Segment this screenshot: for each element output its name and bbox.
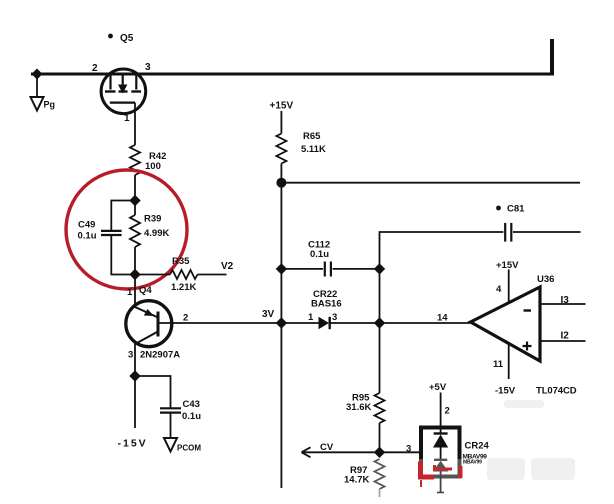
svg-text:R65: R65: [303, 131, 321, 142]
wire op-amp pin4 +15V: [508, 270, 510, 304]
svg-text:3: 3: [332, 312, 337, 323]
svg-text:0.1u: 0.1u: [182, 411, 201, 422]
svg-text:Q4: Q4: [139, 285, 152, 296]
wire Q4 base to 3V node: [158, 322, 282, 324]
wire to -15V: [134, 376, 136, 428]
svg-text:CV: CV: [320, 442, 334, 453]
capacitor C112 0.1u: [281, 240, 379, 277]
label MBAV99 (faded): [463, 454, 488, 466]
svg-text:R39: R39: [144, 214, 161, 225]
diode CR22 BAS16: [281, 289, 379, 329]
diode CR24 package box: [421, 428, 460, 477]
watermark red logo: [418, 462, 461, 488]
resistor R42 100: [130, 145, 166, 175]
svg-text:-15V: -15V: [495, 386, 516, 397]
svg-text:U36: U36: [537, 274, 554, 285]
wire CV with arrow: [302, 442, 380, 457]
diode CR24 top diode: [433, 434, 448, 460]
svg-text:5.11K: 5.11K: [301, 144, 326, 155]
op-amp U36 TL074CD: [471, 274, 577, 397]
transistor Q5 (MOSFET): [92, 33, 151, 124]
wire long rail right: [281, 182, 580, 184]
svg-text:C43: C43: [183, 399, 200, 410]
svg-text:100: 100: [145, 161, 161, 172]
resistor R35 1.21K: [135, 256, 227, 293]
wire C112 right node down to R95: [379, 269, 381, 393]
capacitor C81: [496, 204, 580, 242]
watermark faint blobs: [487, 400, 575, 480]
node CV junction: [374, 447, 385, 458]
svg-text:+15V: +15V: [496, 260, 519, 271]
svg-text:4.99K: 4.99K: [144, 228, 169, 239]
wire op-amp output I2: [540, 340, 586, 342]
svg-text:31.6K: 31.6K: [346, 402, 371, 413]
svg-text:+5V: +5V: [429, 382, 447, 393]
svg-text:BAS16: BAS16: [311, 299, 342, 310]
svg-text:4: 4: [496, 284, 502, 295]
wire R42 to node: [134, 175, 136, 201]
ground Pg: [31, 97, 56, 111]
svg-text:Q5: Q5: [120, 33, 134, 44]
svg-text:C81: C81: [507, 204, 525, 215]
node CR22 right: [374, 317, 385, 328]
resistor R97 14.7K: [344, 459, 385, 497]
wire node to Q4: [134, 275, 136, 308]
resistor R39 4.99K: [130, 201, 169, 275]
svg-text:0.1u: 0.1u: [310, 249, 329, 260]
wire down to C112 node: [280, 183, 282, 269]
wire Q5 pin1 to R42: [134, 103, 136, 145]
wire R65 to node: [280, 164, 282, 183]
svg-text:3V: 3V: [262, 309, 275, 320]
svg-text:1: 1: [308, 312, 314, 323]
svg-text:2N2907A: 2N2907A: [140, 350, 180, 361]
node C112 left: [276, 263, 287, 274]
svg-text:1: 1: [127, 287, 133, 298]
annotation red circle: [66, 170, 187, 289]
svg-text:TL074CD: TL074CD: [536, 386, 577, 397]
svg-text:0.1u: 0.1u: [78, 231, 97, 242]
svg-text:PCOM: PCOM: [177, 444, 201, 453]
svg-text:1: 1: [124, 113, 130, 124]
node C112 right: [374, 263, 385, 274]
transistor Q4 2N2907A: [126, 285, 180, 376]
svg-text:1.21K: 1.21K: [171, 282, 196, 293]
svg-text:I3: I3: [561, 295, 570, 306]
capacitor C49 0.1u: [78, 201, 136, 275]
svg-text:I2: I2: [561, 331, 570, 342]
svg-text:Pg: Pg: [44, 100, 56, 110]
wire ground drop: [36, 74, 38, 97]
ground PCOM: [164, 438, 201, 453]
node R65 bottom: [276, 178, 286, 188]
svg-text:CR24: CR24: [465, 441, 490, 452]
node Q4 emitter junction: [129, 370, 140, 381]
svg-text:3: 3: [145, 62, 151, 73]
svg-text:11: 11: [493, 359, 504, 370]
resistor R95 31.6K: [346, 393, 385, 453]
svg-text:3: 3: [406, 444, 411, 455]
wire 3V node down to bottom: [280, 323, 282, 488]
svg-text:R35: R35: [172, 256, 190, 267]
diode CR24 bottom diode (faded): [433, 460, 449, 493]
wire main top rail: [31, 73, 552, 76]
node 3V: [276, 317, 287, 328]
svg-text:14.7K: 14.7K: [344, 475, 369, 486]
svg-text:14: 14: [437, 313, 448, 324]
svg-text:+15V: +15V: [270, 101, 294, 112]
wire C112 node up and right to C81: [380, 232, 504, 269]
svg-text:2: 2: [445, 406, 450, 417]
wire node to CR24 pin3: [380, 451, 422, 453]
wire +15V to R65: [280, 111, 282, 134]
svg-text:C49: C49: [78, 220, 95, 231]
svg-text:MBAV99: MBAV99: [463, 460, 482, 466]
node R39 bottom: [129, 269, 140, 280]
svg-text:2: 2: [183, 313, 188, 324]
wire down to 3V node: [280, 269, 282, 323]
wire op-amp output I3: [540, 303, 586, 305]
svg-text:V2: V2: [221, 261, 234, 272]
wire op-amp pin11 -15V: [508, 342, 510, 379]
svg-text:2: 2: [92, 63, 98, 74]
svg-text:-15V: -15V: [118, 438, 148, 450]
resistor R65 5.11K: [276, 131, 326, 164]
wire node to op-amp: [380, 322, 471, 324]
capacitor C43 0.1u: [135, 376, 201, 438]
wire top-right vertical stub: [550, 39, 554, 76]
node R42/R39/C49 top: [129, 195, 140, 206]
node left rail junction: [32, 69, 43, 80]
wire +5V to CR24: [440, 393, 442, 434]
svg-text:3: 3: [128, 350, 133, 361]
